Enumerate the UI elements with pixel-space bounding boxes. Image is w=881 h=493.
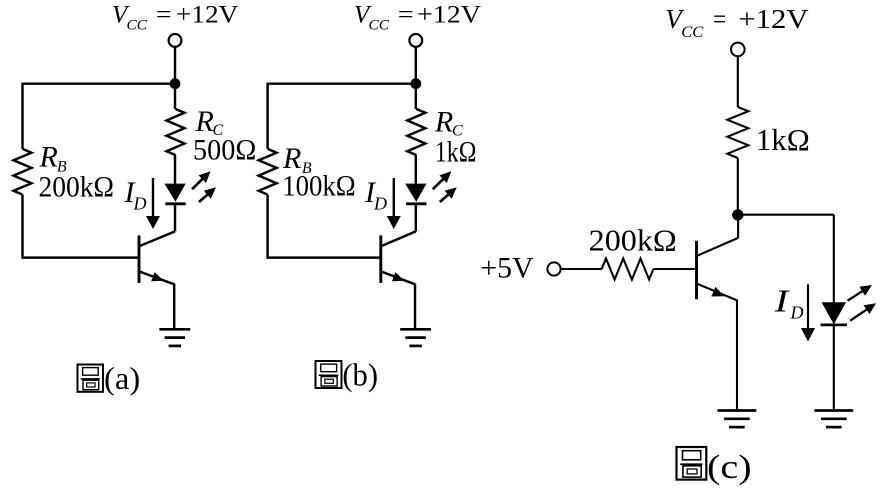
- svg-text:I: I: [773, 282, 789, 318]
- svg-text:(a): (a): [104, 360, 140, 396]
- svg-text:100kΩ: 100kΩ: [282, 169, 356, 202]
- svg-text:R: R: [434, 106, 453, 139]
- svg-text:+12V: +12V: [417, 1, 481, 28]
- svg-text:=: =: [713, 4, 726, 34]
- svg-text:CC: CC: [369, 18, 391, 34]
- svg-text:+12V: +12V: [738, 4, 809, 34]
- svg-text:1kΩ: 1kΩ: [756, 122, 810, 157]
- svg-text:D: D: [373, 194, 387, 214]
- svg-text:+12V: +12V: [176, 1, 239, 28]
- svg-text:=: =: [398, 1, 414, 28]
- svg-text:CC: CC: [681, 24, 703, 41]
- svg-text:=: =: [156, 1, 172, 28]
- svg-text:200kΩ: 200kΩ: [589, 223, 677, 258]
- svg-text:CC: CC: [127, 18, 149, 34]
- svg-text:(c): (c): [707, 449, 752, 486]
- svg-text:500Ω: 500Ω: [193, 133, 256, 166]
- svg-text:R: R: [39, 140, 58, 173]
- svg-text:1kΩ: 1kΩ: [435, 135, 477, 168]
- svg-text:200kΩ: 200kΩ: [39, 170, 115, 203]
- svg-text:D: D: [133, 194, 147, 214]
- svg-text:(b): (b): [342, 357, 378, 393]
- svg-text:+5V: +5V: [480, 252, 534, 285]
- svg-text:D: D: [790, 302, 804, 322]
